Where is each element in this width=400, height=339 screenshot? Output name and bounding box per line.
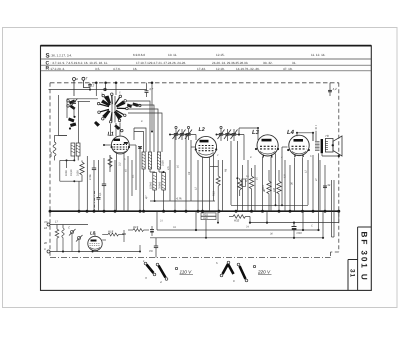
dots below bus — [195, 222, 324, 239]
resistor R10 vertical — [272, 170, 281, 211]
svg-text:C50: C50 — [297, 231, 303, 235]
misc tiny value labels — [101, 92, 318, 236]
svg-text:L3: L3 — [252, 129, 260, 136]
IF transformer T1 coil b — [148, 152, 151, 169]
trimmer C14 — [218, 126, 225, 141]
svg-text:3,2: 3,2 — [119, 162, 122, 166]
trimmer C15 — [224, 129, 231, 141]
wire below-bus horizontal y222.6 — [250, 211, 339, 222]
resistor R1 vertical — [77, 156, 88, 211]
IF transformer T1 coil a — [142, 152, 145, 169]
svg-text:47. 18.: 47. 18. — [283, 67, 293, 71]
svg-text:220 V: 220 V — [257, 270, 271, 275]
svg-text:4(7: 4(7 — [145, 195, 148, 199]
coil small L9 — [62, 228, 64, 252]
electrolytic C31 — [150, 226, 154, 236]
midband wire verticals group A — [210, 141, 255, 211]
resistor R16 horizontal — [102, 230, 124, 244]
capacitor C2 on right stub — [328, 87, 337, 92]
svg-text:470k: 470k — [89, 174, 92, 180]
tube L2 pin wires — [191, 147, 214, 211]
svg-text:24: 24 — [245, 226, 249, 229]
svg-text:2: 2 — [92, 84, 95, 88]
svg-text:31.: 31. — [292, 61, 296, 65]
tube L3 pin wires — [258, 128, 276, 211]
svg-text:20: 20 — [43, 241, 48, 245]
tube L3 — [252, 129, 279, 158]
wire stubs from dashed line down — [96, 83, 330, 132]
svg-text:70000: 70000 — [158, 181, 161, 189]
svg-text:3.5.: 3.5. — [95, 67, 100, 71]
svg-text:17-43.: 17-43. — [197, 67, 206, 71]
volume pot assembly — [68, 226, 83, 252]
svg-text:30- 32.: 30- 32. — [263, 61, 273, 65]
band switch S1 starburst — [100, 96, 126, 121]
drawing frame border — [41, 46, 372, 291]
wire below-bus horizontal y230 — [157, 211, 319, 230]
svg-text:4,2: 4,2 — [333, 87, 338, 91]
resistor R20 vertical small — [55, 229, 59, 252]
trimmer C12 — [185, 126, 192, 140]
svg-text:110 V: 110 V — [180, 270, 193, 275]
resistor R8 vertical — [244, 168, 254, 211]
electrolytic capacitor C50 — [292, 223, 303, 238]
coil L6 lower box — [149, 173, 156, 191]
title block sidebar boxes — [348, 227, 371, 290]
resistor R14 vertical — [238, 178, 242, 196]
svg-text:6.9.8.6.6: 6.9.8.6.6 — [133, 53, 145, 57]
wave switch contact blobs left — [68, 116, 76, 130]
wire below-bus horizontal y237.8 — [206, 211, 334, 238]
resistor R19 horizontal — [128, 225, 149, 232]
trimmer C11 — [179, 129, 186, 140]
svg-text:L1: L1 — [108, 132, 114, 138]
svg-text:4.7.6.: 4.7.6. — [113, 67, 121, 71]
wire transformer to chassis — [322, 153, 340, 157]
svg-text:R32: R32 — [234, 219, 240, 223]
junction dots on bus — [49, 210, 341, 213]
svg-text:3150: 3150 — [77, 170, 80, 176]
svg-text:14-19.76.-32.-36.: 14-19.76.-32.-36. — [236, 67, 260, 71]
voltage divider box R31 — [201, 216, 216, 220]
wire L2 to L3 coupling — [217, 128, 259, 160]
wire L8 output — [62, 240, 140, 253]
svg-text:10. 11.: 10. 11. — [168, 53, 177, 57]
svg-text:2: 2 — [149, 267, 152, 271]
header row S parts list — [46, 53, 326, 60]
svg-text:R18: R18 — [108, 230, 114, 234]
band switch rotor shaft lines — [112, 96, 115, 123]
phono terminal P2 — [44, 247, 50, 253]
svg-text:a,1: a,1 — [132, 174, 135, 178]
svg-text:16.: 16. — [133, 67, 137, 71]
svg-text:L2: L2 — [199, 127, 205, 133]
svg-text:T8: T8 — [325, 134, 329, 138]
tube L1 — [108, 132, 131, 154]
wire antenna drops — [74, 80, 90, 96]
svg-text:24-26. 24. 29.36.35.28.33.: 24-26. 24. 29.36.35.28.33. — [212, 61, 248, 65]
label 110 V — [175, 267, 193, 274]
svg-text:11. 12. 14.: 11. 12. 14. — [311, 53, 326, 57]
svg-text:31: 31 — [348, 269, 355, 278]
svg-text:0,1: 0,1 — [99, 192, 102, 196]
wire vertical x79 — [79, 155, 110, 211]
wires nested left of switch — [58, 95, 98, 143]
svg-text:12.15.: 12.15. — [216, 53, 225, 57]
wire phono top y224.5 — [50, 225, 140, 252]
capacitor C1 antenna series — [88, 83, 94, 90]
svg-text:21: 21 — [159, 220, 163, 223]
antenna terminal Oa — [73, 77, 79, 81]
svg-text:TA: TA — [44, 220, 48, 224]
svg-text:12.18.: 12.18. — [216, 67, 225, 71]
svg-text:R13: R13 — [213, 191, 216, 196]
terminal labels 16 17 — [43, 220, 59, 246]
capacitor C22 to chassis bottom — [149, 238, 206, 258]
wire top horizontal y89.6 — [49, 89, 147, 91]
svg-text:15000: 15000 — [149, 181, 152, 189]
svg-text:S: S — [46, 53, 50, 60]
svg-text::36, 1.2.17, 3.4.: :36, 1.2.17, 3.4. — [51, 54, 73, 58]
svg-text::17.2.20. 4.: :17.2.20. 4. — [50, 67, 66, 71]
coil L-osc labels — [65, 160, 73, 176]
header row R parts list — [46, 66, 293, 72]
oscillator block loop — [60, 156, 83, 182]
antenna coil left edge — [49, 135, 67, 160]
tube L2 — [195, 127, 218, 158]
svg-text:C: C — [311, 225, 313, 228]
resistor R3 vertical — [108, 155, 112, 172]
capacitor C8 small — [138, 147, 142, 149]
linkage dash-dot vertical — [94, 191, 96, 211]
junction dots on y89.6 — [89, 89, 107, 91]
svg-text:4,7: 4,7 — [149, 87, 154, 91]
label 220 V — [253, 265, 271, 274]
IF transformer T1 coil c — [157, 152, 164, 169]
capacitor C5 vertical — [89, 160, 96, 211]
midband wire verticals group B — [285, 160, 334, 237]
tube L4 pin wires — [282, 147, 303, 211]
antenna terminal Ob — [82, 77, 89, 81]
resistor R13 vertical — [213, 176, 221, 196]
svg-text:1M: 1M — [272, 187, 276, 192]
svg-text:3150: 3150 — [162, 160, 165, 166]
mains switch contacts left — [143, 259, 168, 284]
svg-text:: 3.7.14. 9. 7.4.5.19.6.2.: : 3.7.14. 9. 7.4.5.19.6.2. 16. 13.15. 18… — [51, 61, 109, 65]
trimmer capacitor C4 — [71, 99, 78, 107]
svg-text:1000: 1000 — [65, 170, 68, 176]
resistor R32 horizontal below bus — [229, 215, 250, 223]
phono terminal P1 — [44, 220, 50, 226]
svg-text:L4: L4 — [287, 129, 295, 136]
svg-text:16: 16 — [44, 226, 48, 230]
wire horizontal y205.3 — [231, 204, 308, 206]
svg-text:17.10.7.129.4.7.21. 27.24.26.: 17.10.7.129.4.7.21. 27.24.26. 24-26. — [136, 61, 186, 65]
wire L4 anode to transformer — [297, 125, 316, 141]
trimmer C10 — [173, 126, 180, 140]
wire L2 grid line — [170, 135, 196, 141]
speaker LS — [325, 136, 342, 156]
output transformer T2 — [315, 134, 329, 153]
tube L8 pin wires — [93, 233, 98, 252]
extra junction dots — [62, 127, 298, 253]
band switch wedge blobs — [69, 96, 139, 131]
wire verticals x115 x124 x128 — [115, 145, 140, 211]
oscillator coil La — [71, 143, 75, 156]
wire horizontal y201 — [150, 197, 215, 202]
svg-text:R24: R24 — [262, 185, 265, 190]
svg-text:6,8: 6,8 — [284, 174, 287, 178]
svg-text:4,7k: 4,7k — [176, 197, 182, 201]
junction dots on chassis dashed top — [95, 82, 153, 85]
wire right verticals — [308, 133, 319, 230]
capacitor C30 vertical — [122, 230, 126, 242]
capacitor C20 right — [323, 183, 331, 188]
band switch contact circles — [67, 88, 141, 132]
tube L8 — [88, 231, 102, 251]
band switch extra contact blobs — [94, 104, 132, 127]
capacitor C6 vertical — [99, 158, 106, 211]
mains switch contacts right — [216, 261, 248, 283]
wires from switch bottom to tube L1 — [111, 123, 121, 137]
svg-text:a: a — [76, 77, 78, 81]
wires right of switch to coils — [127, 101, 162, 152]
svg-text:R19: R19 — [133, 225, 139, 229]
chassis dashed outline — [50, 83, 339, 258]
svg-text:17: 17 — [55, 220, 59, 224]
svg-text:31,50: 31,50 — [70, 169, 73, 176]
detector box — [242, 175, 250, 187]
wires coil connections mid — [144, 135, 198, 212]
capacitor C3 mixer input — [145, 83, 154, 97]
svg-text:0,1: 0,1 — [244, 178, 248, 182]
header row C parts list — [46, 60, 297, 66]
header table rule lines — [41, 59, 372, 71]
svg-text:BF 301 U: BF 301 U — [359, 232, 368, 282]
capacitor C7b — [97, 198, 101, 212]
sheet number 31 (rotated) — [348, 269, 355, 278]
title text BF 301 U (rotated) — [359, 232, 368, 282]
trimmer C16 — [231, 129, 238, 141]
voltage divider box R30 — [201, 213, 216, 217]
svg-text:C9: C9 — [149, 249, 153, 253]
svg-text:4,5: 4,5 — [167, 166, 170, 170]
oscillator coil Lb — [76, 143, 80, 156]
main ground bus — [50, 210, 339, 212]
tube L1 pin wires — [104, 145, 136, 211]
coil L7 lower box — [158, 173, 165, 191]
tube L4 — [287, 129, 310, 157]
resistor R9 vertical — [262, 170, 271, 211]
